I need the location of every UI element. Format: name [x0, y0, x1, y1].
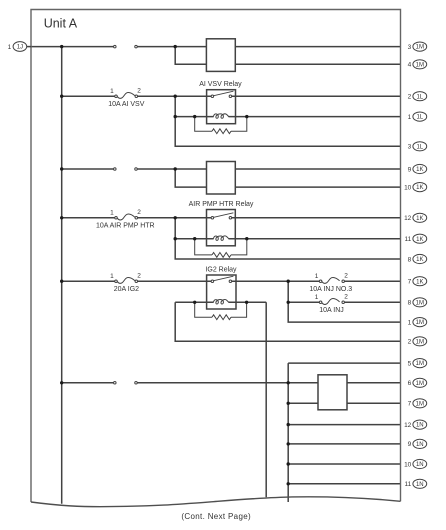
svg-text:1M: 1M [416, 401, 424, 407]
svg-text:9: 9 [408, 441, 412, 448]
svg-text:1L: 1L [416, 144, 423, 150]
svg-text:1K: 1K [416, 216, 423, 222]
svg-text:2: 2 [137, 88, 141, 95]
svg-text:2: 2 [408, 94, 412, 101]
svg-text:8: 8 [408, 300, 412, 307]
svg-text:AIR PMP HTR Relay: AIR PMP HTR Relay [189, 201, 254, 208]
svg-text:11: 11 [405, 236, 412, 243]
svg-text:(Cont. Next Page): (Cont. Next Page) [181, 512, 251, 521]
svg-text:2: 2 [408, 339, 412, 346]
svg-text:AI VSV Relay: AI VSV Relay [199, 81, 242, 88]
svg-text:1M: 1M [416, 361, 424, 367]
svg-text:6: 6 [408, 380, 412, 387]
svg-text:Unit A: Unit A [44, 16, 78, 30]
svg-text:10A AIR PMP HTR: 10A AIR PMP HTR [96, 223, 155, 230]
svg-text:1M: 1M [416, 381, 424, 387]
svg-text:1K: 1K [416, 167, 423, 173]
svg-text:10A INJ: 10A INJ [319, 307, 344, 314]
svg-text:2: 2 [344, 294, 348, 301]
svg-text:7: 7 [408, 401, 412, 408]
svg-text:2: 2 [137, 209, 141, 216]
svg-text:1: 1 [408, 114, 412, 121]
svg-text:2: 2 [137, 273, 141, 280]
svg-text:1N: 1N [416, 423, 424, 429]
svg-text:1K: 1K [416, 257, 423, 263]
svg-text:1: 1 [8, 44, 12, 51]
svg-text:12: 12 [404, 215, 412, 222]
svg-text:1J: 1J [17, 45, 23, 51]
svg-text:1M: 1M [416, 339, 424, 345]
svg-text:1: 1 [110, 88, 114, 95]
svg-text:1M: 1M [416, 45, 424, 51]
svg-text:1: 1 [315, 294, 319, 301]
svg-text:1K: 1K [416, 279, 423, 285]
svg-text:1N: 1N [416, 482, 424, 488]
svg-text:1: 1 [110, 209, 114, 216]
svg-text:1: 1 [315, 273, 319, 280]
svg-text:10: 10 [404, 461, 412, 468]
svg-text:1N: 1N [416, 442, 424, 448]
svg-text:10A AI VSV: 10A AI VSV [108, 101, 145, 108]
svg-text:1N: 1N [416, 462, 424, 468]
svg-text:3: 3 [408, 44, 412, 51]
svg-text:1K: 1K [416, 185, 423, 191]
svg-text:1M: 1M [416, 62, 424, 68]
svg-text:7: 7 [408, 279, 412, 286]
svg-text:10: 10 [404, 184, 412, 191]
svg-text:IG2 Relay: IG2 Relay [205, 266, 237, 273]
svg-text:3: 3 [408, 144, 412, 151]
svg-text:1L: 1L [416, 115, 423, 121]
svg-text:8: 8 [408, 256, 412, 263]
svg-text:1M: 1M [416, 300, 424, 306]
svg-text:20A IG2: 20A IG2 [114, 286, 139, 293]
svg-text:12: 12 [404, 422, 412, 429]
svg-text:11: 11 [405, 481, 412, 488]
svg-text:2: 2 [344, 273, 348, 280]
svg-text:1: 1 [110, 273, 114, 280]
svg-text:1M: 1M [416, 320, 424, 326]
svg-text:9: 9 [408, 166, 412, 173]
svg-text:1K: 1K [416, 237, 423, 243]
svg-text:4: 4 [408, 62, 412, 69]
svg-text:1: 1 [408, 319, 412, 326]
svg-text:10A INJ NO.3: 10A INJ NO.3 [309, 286, 352, 293]
svg-text:5: 5 [408, 360, 412, 367]
svg-text:1L: 1L [416, 94, 423, 100]
